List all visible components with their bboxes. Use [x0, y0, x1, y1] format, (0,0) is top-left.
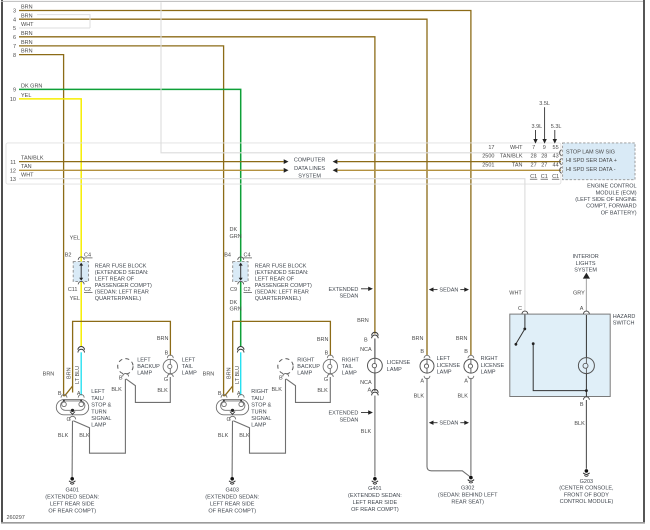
svg-text:LICENSE: LICENSE [481, 363, 505, 369]
svg-text:MODULE (ECM): MODULE (ECM) [596, 190, 637, 196]
svg-text:9: 9 [543, 145, 546, 151]
svg-text:(SEDAN: LEFT REAR: (SEDAN: LEFT REAR [95, 290, 149, 296]
svg-text:INTERIOR: INTERIOR [572, 254, 598, 260]
rear fuse block C1 (left) [65, 236, 152, 302]
svg-text:A: A [368, 387, 372, 393]
svg-text:SYSTEM: SYSTEM [298, 173, 321, 179]
svg-text:COMPT, FORWARD: COMPT, FORWARD [586, 204, 636, 210]
svg-text:HAZARD: HAZARD [613, 314, 636, 320]
wire BRN left tail feed [64, 321, 170, 396]
svg-text:5: 5 [13, 26, 16, 32]
node computer data lines system [294, 158, 326, 180]
svg-text:GRN: GRN [230, 307, 242, 313]
left backup lamp E2 [111, 357, 170, 402]
svg-text:(EXTENDED SEDAN:: (EXTENDED SEDAN: [348, 493, 402, 499]
svg-text:FRONT OF BODY: FRONT OF BODY [564, 492, 609, 498]
svg-text:6: 6 [13, 35, 16, 41]
svg-text:OF BATTERY): OF BATTERY) [601, 210, 637, 216]
svg-text:G: G [324, 377, 328, 383]
svg-text:BRN: BRN [21, 49, 33, 55]
svg-text:8: 8 [13, 53, 16, 59]
wire 12 TAN [10, 164, 561, 174]
svg-text:BRN: BRN [157, 336, 169, 342]
wire 5 WHT [13, 15, 90, 33]
label 5.3L arrow [551, 124, 562, 144]
svg-text:TAN/BLK: TAN/BLK [21, 155, 44, 161]
svg-text:EXTENDED: EXTENDED [328, 411, 358, 417]
svg-text:2500: 2500 [482, 154, 494, 160]
wire 11 TAN/BLK [10, 155, 561, 165]
svg-text:B4: B4 [224, 253, 231, 259]
svg-text:STOP &: STOP & [91, 403, 111, 409]
wire 13 WHT to hazard switch [10, 173, 525, 312]
label sedan lower [429, 421, 469, 427]
svg-text:44: 44 [553, 162, 559, 168]
svg-text:REAR FUSE BLOCK: REAR FUSE BLOCK [95, 263, 147, 269]
svg-text:RIGHT: RIGHT [481, 356, 499, 362]
svg-text:QUARTERPANEL): QUARTERPANEL) [255, 296, 301, 302]
wire BLK hazard to ground [574, 400, 586, 469]
svg-text:10: 10 [10, 97, 16, 103]
svg-text:G: G [227, 417, 231, 423]
svg-text:LEFT: LEFT [182, 357, 196, 363]
svg-text:BRN: BRN [67, 367, 73, 379]
interior lights system node [572, 254, 598, 311]
rear fuse block C2 (right) [224, 227, 312, 313]
svg-text:B2: B2 [65, 253, 72, 259]
svg-text:28: 28 [531, 154, 537, 160]
ground G403 right [205, 477, 259, 514]
svg-text:BRN: BRN [21, 5, 33, 11]
svg-text:BACKUP: BACKUP [297, 364, 320, 370]
svg-text:LAMP: LAMP [342, 371, 357, 377]
wire BRN right tail feed [224, 321, 330, 396]
svg-text:DATA LINES: DATA LINES [294, 166, 325, 172]
svg-text:BLK: BLK [414, 393, 425, 399]
label 3.9L arrow [532, 124, 543, 144]
svg-text:3.5L: 3.5L [539, 101, 550, 107]
wire 8 BRN to left tail/stop lamp [13, 49, 64, 397]
label extended sedan upper [328, 287, 372, 300]
svg-text:BACKUP: BACKUP [137, 364, 160, 370]
svg-text:TAN/BLK: TAN/BLK [500, 154, 523, 160]
svg-text:(SEDAN: LEFT REAR: (SEDAN: LEFT REAR [255, 290, 309, 296]
svg-text:GRN: GRN [230, 234, 242, 240]
label 3.5L arrow [539, 101, 550, 143]
svg-text:TAN: TAN [21, 164, 32, 170]
label sedan upper [429, 287, 469, 293]
svg-text:G: G [164, 377, 168, 383]
wire 6 BRN to license lamp (extended sedan) [13, 31, 375, 334]
right backup lamp E5 [271, 357, 330, 402]
svg-text:(EXTENDED SEDAN:: (EXTENDED SEDAN: [255, 270, 309, 276]
svg-text:BLK: BLK [79, 433, 90, 439]
svg-text:13: 13 [10, 177, 16, 183]
svg-text:55: 55 [553, 145, 559, 151]
svg-text:(CENTER CONSOLE,: (CENTER CONSOLE, [559, 486, 614, 492]
svg-text:BRN: BRN [43, 372, 55, 378]
svg-text:4: 4 [13, 17, 16, 23]
svg-text:BRN: BRN [456, 336, 468, 342]
svg-text:SIGNAL: SIGNAL [251, 416, 271, 422]
svg-text:(EXTENDED SEDAN:: (EXTENDED SEDAN: [95, 270, 149, 276]
svg-text:TAIL/: TAIL/ [251, 396, 264, 402]
svg-text:ENGINE CONTROL: ENGINE CONTROL [587, 184, 637, 190]
svg-text:PASSENGER COMPT): PASSENGER COMPT) [255, 283, 312, 289]
svg-text:27: 27 [541, 162, 547, 168]
svg-text:(SEDAN: BEHIND LEFT: (SEDAN: BEHIND LEFT [438, 493, 498, 499]
svg-text:LEFT REAR OF: LEFT REAR OF [95, 277, 135, 283]
svg-text:STOP &: STOP & [251, 403, 271, 409]
right license lamp E9 [456, 336, 505, 476]
svg-text:BLK: BLK [239, 433, 250, 439]
wire 7 BRN to right tail/stop lamp [13, 40, 224, 396]
hazard switch S1 [510, 306, 636, 408]
svg-text:5.3L: 5.3L [551, 124, 562, 130]
svg-text:TAIL: TAIL [342, 364, 353, 370]
svg-text:WHT: WHT [510, 145, 523, 151]
svg-text:B: B [464, 349, 468, 355]
ECM circuit numbers [482, 145, 523, 168]
svg-text:DK: DK [230, 227, 238, 233]
svg-text:BRN: BRN [21, 40, 33, 46]
svg-text:LIGHTS: LIGHTS [576, 261, 596, 267]
svg-text:B: B [420, 349, 424, 355]
right tail/stop & turn signal lamp E4 [203, 366, 272, 429]
ground G203 [559, 469, 614, 505]
svg-text:(LEFT SIDE OF ENGINE: (LEFT SIDE OF ENGINE [575, 197, 637, 203]
svg-text:BRN: BRN [203, 372, 215, 378]
svg-text:11: 11 [10, 160, 16, 166]
connector YEL / LT BLU [78, 347, 85, 396]
svg-text:A: A [420, 379, 424, 385]
svg-text:9: 9 [13, 88, 16, 94]
svg-text:BLK: BLK [111, 387, 122, 393]
svg-text:3.9L: 3.9L [532, 124, 543, 130]
svg-text:HI SPD SER DATA -: HI SPD SER DATA - [566, 167, 616, 173]
svg-text:CONTROL MODULE): CONTROL MODULE) [560, 499, 614, 505]
svg-text:RIGHT: RIGHT [251, 389, 269, 395]
ground G401 license [348, 477, 402, 513]
svg-text:G401: G401 [368, 486, 381, 492]
ground G401 left [45, 477, 99, 514]
left lamp ground wires BLK [58, 379, 126, 477]
svg-text:3: 3 [13, 9, 16, 15]
svg-text:LEFT: LEFT [91, 389, 105, 395]
svg-text:LICENSE: LICENSE [437, 363, 461, 369]
svg-text:BLK: BLK [457, 393, 468, 399]
svg-text:LAMP: LAMP [91, 423, 106, 429]
license lamp E7 (extended sedan) [357, 318, 411, 477]
wire 17 WHT row to ECM [161, 2, 561, 153]
wire 9 DK GRN [13, 83, 241, 346]
right tail lamp E6 [317, 350, 359, 394]
svg-text:TURN: TURN [251, 409, 266, 415]
svg-text:LEFT: LEFT [137, 357, 151, 363]
svg-text:LT BLU: LT BLU [235, 366, 241, 384]
svg-text:OF REAR COMPT): OF REAR COMPT) [48, 508, 96, 514]
svg-text:WHT: WHT [509, 291, 522, 297]
svg-text:LEFT REAR SIDE: LEFT REAR SIDE [353, 500, 398, 506]
svg-text:STOP LAM SW SIG: STOP LAM SW SIG [566, 149, 615, 155]
svg-text:BRN: BRN [317, 337, 329, 343]
svg-text:LEFT: LEFT [437, 356, 451, 362]
svg-text:B: B [364, 338, 368, 344]
svg-text:G203: G203 [580, 479, 593, 485]
svg-text:17: 17 [488, 145, 494, 151]
svg-text:C11: C11 [68, 287, 78, 293]
svg-text:WHT: WHT [21, 173, 34, 179]
svg-text:LAMP: LAMP [137, 371, 152, 377]
left tail lamp E3 [157, 350, 197, 394]
svg-text:BRN: BRN [227, 367, 233, 379]
svg-text:COMPUTER: COMPUTER [294, 158, 326, 164]
svg-text:YEL: YEL [70, 236, 80, 242]
svg-text:BRN: BRN [412, 336, 424, 342]
svg-text:HI SPD SER DATA +: HI SPD SER DATA + [566, 158, 617, 164]
ECM pin numbers [530, 145, 559, 180]
svg-text:SEDAN: SEDAN [439, 421, 458, 427]
wire 3 BRN to right license lamp [13, 5, 471, 356]
svg-text:GRY: GRY [573, 291, 585, 297]
svg-text:LEFT REAR SIDE: LEFT REAR SIDE [210, 501, 255, 507]
connector DK GRN / LT BLU [237, 346, 244, 395]
svg-text:LICENSE: LICENSE [387, 360, 411, 366]
svg-text:LAMP: LAMP [387, 367, 402, 373]
svg-text:DK: DK [230, 300, 238, 306]
svg-text:43: 43 [553, 154, 559, 160]
right lamp ground wires BLK [218, 379, 286, 477]
svg-text:(EXTENDED SEDAN:: (EXTENDED SEDAN: [45, 495, 99, 501]
left tail/stop & turn signal lamp E1 [43, 366, 112, 429]
svg-text:2501: 2501 [482, 162, 494, 168]
svg-text:B: B [580, 402, 584, 408]
svg-text:EXTENDED: EXTENDED [328, 287, 358, 293]
ECM module U1 [560, 143, 637, 217]
svg-text:27: 27 [531, 162, 537, 168]
svg-text:G302: G302 [461, 486, 474, 492]
svg-text:(EXTENDED SEDAN:: (EXTENDED SEDAN: [205, 495, 259, 501]
svg-text:TAN: TAN [512, 162, 523, 168]
svg-text:SWITCH: SWITCH [613, 321, 635, 327]
svg-text:SIGNAL: SIGNAL [91, 416, 111, 422]
svg-text:LAMP: LAMP [297, 371, 312, 377]
svg-text:A: A [580, 306, 584, 312]
svg-text:BLK: BLK [58, 433, 69, 439]
svg-text:DK GRN: DK GRN [21, 83, 42, 89]
svg-text:SYSTEM: SYSTEM [574, 268, 597, 274]
svg-text:12: 12 [10, 169, 16, 175]
svg-text:B: B [119, 376, 123, 382]
svg-text:RIGHT: RIGHT [297, 357, 315, 363]
svg-text:G401: G401 [65, 488, 78, 494]
svg-text:YEL: YEL [21, 93, 31, 99]
svg-text:BLK: BLK [218, 433, 229, 439]
svg-text:SEDAN: SEDAN [439, 288, 458, 294]
svg-text:OF REAR COMPT): OF REAR COMPT) [351, 507, 399, 513]
svg-text:TURN: TURN [91, 409, 106, 415]
svg-text:SEDAN: SEDAN [339, 294, 358, 300]
svg-text:BLK: BLK [317, 388, 328, 394]
svg-text:G: G [67, 417, 71, 423]
svg-text:REAR SEAT): REAR SEAT) [451, 499, 484, 505]
svg-text:PASSENGER COMPT): PASSENGER COMPT) [95, 283, 152, 289]
svg-text:NCA: NCA [360, 380, 372, 386]
svg-text:LAMP: LAMP [437, 370, 452, 376]
svg-text:LT BLU: LT BLU [75, 366, 81, 384]
svg-text:TAIL/: TAIL/ [91, 396, 104, 402]
svg-text:NCA: NCA [360, 347, 372, 353]
svg-text:BLK: BLK [574, 421, 585, 427]
wire 4 BRN to left license lamp [13, 13, 427, 355]
svg-text:BRN: BRN [21, 31, 33, 37]
svg-text:SEDAN: SEDAN [339, 417, 358, 423]
svg-text:LAMP: LAMP [251, 423, 266, 429]
svg-text:WHT: WHT [21, 22, 34, 28]
svg-text:A: A [464, 379, 468, 385]
svg-text:B: B [279, 376, 283, 382]
svg-text:YEL: YEL [70, 296, 80, 302]
svg-text:RIGHT: RIGHT [342, 357, 360, 363]
band box around data lines [6, 143, 561, 184]
svg-text:C: C [518, 306, 522, 312]
svg-text:REAR FUSE BLOCK: REAR FUSE BLOCK [255, 263, 307, 269]
svg-text:BLK: BLK [361, 429, 372, 435]
svg-text:LAMP: LAMP [182, 371, 197, 377]
svg-text:LAMP: LAMP [481, 370, 496, 376]
svg-text:QUARTERPANEL): QUARTERPANEL) [95, 296, 141, 302]
svg-text:LEFT REAR OF: LEFT REAR OF [255, 277, 295, 283]
wire 10 YEL [10, 93, 81, 347]
svg-text:BRN: BRN [357, 318, 369, 324]
svg-text:BLK: BLK [157, 388, 168, 394]
svg-text:TAIL: TAIL [182, 364, 193, 370]
svg-text:BLK: BLK [271, 387, 282, 393]
left license lamp E8 [412, 336, 470, 477]
svg-text:7: 7 [13, 44, 16, 50]
svg-text:G403: G403 [225, 488, 238, 494]
svg-text:260297: 260297 [7, 515, 25, 521]
svg-text:28: 28 [541, 154, 547, 160]
label extended sedan lower [328, 410, 372, 423]
ground G302 [438, 476, 498, 506]
svg-text:7: 7 [532, 145, 535, 151]
svg-text:C9: C9 [230, 287, 237, 293]
svg-text:BRN: BRN [21, 13, 33, 19]
svg-text:LEFT REAR SIDE: LEFT REAR SIDE [50, 501, 95, 507]
svg-text:OF REAR COMPT): OF REAR COMPT) [208, 508, 256, 514]
